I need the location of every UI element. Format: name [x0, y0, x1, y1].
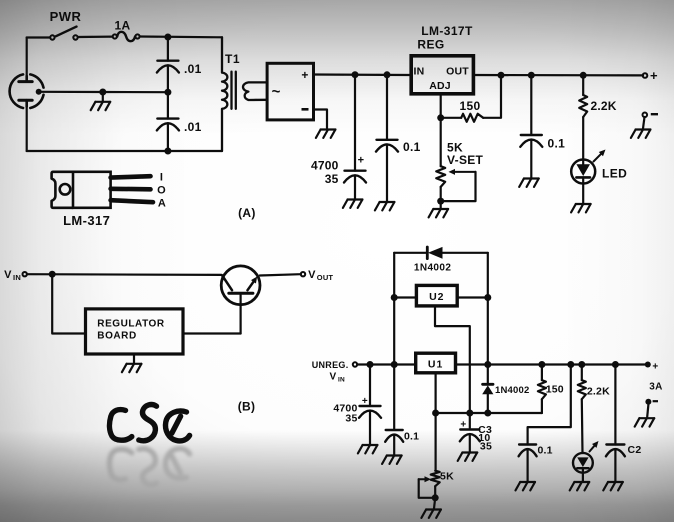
wire LED D4 to ground [582, 473, 584, 481]
label V-SET [447, 153, 484, 167]
svg-text:1N4002: 1N4002 [495, 385, 529, 396]
wire C4 to ground [386, 144, 388, 201]
wire R1 to rail [483, 75, 501, 118]
resistor R1 150 [461, 114, 483, 122]
capacitor C2 .01 [157, 119, 179, 131]
ground R6 [421, 510, 441, 518]
wire B rail left [357, 363, 416, 365]
wire wiper loop [441, 172, 476, 201]
wire -B to ground [647, 405, 648, 418]
wire U2 left [394, 296, 416, 298]
wire R3 to LED [582, 117, 584, 160]
LED D1 arrow [594, 150, 606, 162]
regulator U2 box [416, 285, 457, 306]
regulator U1 box [416, 353, 456, 373]
wire dogleg [528, 365, 571, 445]
label BR1 - [302, 108, 309, 111]
svg-text:T1: T1 [225, 52, 240, 66]
wire B rail to C6 [369, 365, 371, 407]
label D3 1N4002 [495, 385, 529, 396]
transistor Q1 [221, 266, 260, 305]
svg-text:2.2K: 2.2K [591, 99, 617, 113]
bridge rectifier BR1 [267, 63, 313, 120]
label B 4700 [333, 403, 357, 415]
wire C3 to ground [354, 175, 356, 198]
label B 35 [345, 413, 357, 425]
node R4 junction [538, 361, 545, 368]
ground BR1 minus [316, 130, 336, 138]
label (A) [238, 206, 256, 220]
node R5 junction [578, 361, 585, 368]
node VIN junction [49, 271, 56, 278]
svg-text:(B): (B) [238, 400, 256, 414]
svg-text:35: 35 [325, 172, 339, 186]
wire rail to C3 [354, 75, 356, 171]
svg-text:5K: 5K [440, 471, 454, 483]
svg-text:~: ~ [272, 84, 281, 101]
wire board ground stub [133, 354, 135, 363]
svg-text:IN: IN [414, 66, 425, 78]
svg-text:+: + [358, 155, 365, 167]
wire rail to C5 [530, 75, 532, 135]
resistor R3 2.2K [579, 95, 587, 117]
pot R2 wiper [449, 169, 476, 175]
svg-text:LM-317: LM-317 [63, 213, 110, 228]
svg-text:IN: IN [338, 377, 345, 384]
label LED [602, 167, 627, 181]
wire VIN drop [52, 274, 85, 333]
label T1 [225, 52, 240, 66]
svg-text:UNREG.: UNREG. [312, 360, 349, 370]
svg-text:U2: U2 [429, 291, 444, 303]
wire rail to C10 [614, 365, 616, 445]
label pin O [157, 184, 166, 196]
CSE logo [109, 405, 189, 441]
capacitor C1 .01 [157, 61, 179, 73]
label 3A [649, 382, 663, 393]
svg-text:4700: 4700 [311, 159, 339, 173]
svg-text:V: V [4, 269, 12, 281]
wire base lead [240, 293, 242, 333]
label B 5K [440, 471, 454, 483]
svg-text:35: 35 [345, 413, 357, 425]
wire rail to R4 [541, 365, 543, 381]
wire left vert top [393, 253, 395, 365]
label LM-317 [63, 213, 110, 228]
label U1 [428, 359, 443, 371]
svg-text:PWR: PWR [50, 9, 82, 24]
transformer T1 secondary [243, 82, 267, 100]
node ADJ junction [437, 114, 444, 121]
svg-text:+: + [460, 420, 466, 431]
label C8 + [460, 420, 466, 431]
wire C5 to ground [530, 140, 532, 178]
ground C8 [458, 453, 478, 461]
svg-text:35: 35 [480, 441, 492, 453]
capacitor C10 C2 [606, 445, 625, 457]
ground C9 [516, 482, 536, 490]
label C2 .01 [184, 120, 202, 134]
wire emitter to VOUT [260, 274, 301, 275]
wire U1 bottom [435, 373, 437, 471]
wire R6 bottom [434, 486, 436, 498]
terminal - output A [643, 113, 659, 118]
svg-text:0.1: 0.1 [538, 445, 553, 457]
label C6 + [362, 396, 368, 407]
svg-text:0.1: 0.1 [404, 431, 419, 443]
wire plug dot to ground node [42, 91, 103, 93]
svg-text:1N4002: 1N4002 [414, 263, 451, 274]
wire right vert top [487, 253, 489, 384]
node bus D3 junction [484, 410, 491, 417]
svg-text:2.2K: 2.2K [587, 386, 610, 398]
regulator board box [86, 309, 184, 354]
ground neutral [91, 102, 111, 110]
label IN [414, 66, 425, 78]
node 0.1B junction [528, 72, 535, 79]
transformer T1 core [232, 72, 236, 109]
node U2 right junction [484, 294, 491, 301]
node pot bottom junction [437, 198, 444, 205]
label C3 [478, 424, 492, 436]
label ADJ [429, 80, 451, 92]
node bus C8 junction [466, 410, 473, 417]
svg-text:OUT: OUT [446, 66, 469, 78]
potentiometer R2 5K [436, 166, 445, 187]
node bus left junction [432, 410, 439, 417]
AC plug P1 [10, 74, 44, 108]
svg-text:C2: C2 [628, 444, 642, 456]
regulator U1 LM-317T box [411, 56, 473, 94]
wire adj bus [436, 412, 542, 414]
svg-text:(A): (A) [238, 206, 256, 220]
wire R4 to bus [541, 399, 543, 413]
wire R5 to LED [581, 399, 584, 453]
capacitor C9 0.1 [519, 445, 537, 457]
wire switch to fuse [78, 35, 112, 38]
capacitor C8 C3 10/35 [460, 430, 480, 442]
wire fuse to T1 [140, 35, 222, 38]
LED D4 [573, 453, 593, 473]
wire left vert to C7 [393, 365, 395, 431]
wire ADJ to pot [440, 118, 442, 166]
svg-text:OUT: OUT [317, 273, 334, 282]
node mid junction [164, 89, 171, 96]
LED D4 arrow [590, 441, 599, 452]
label (B) [238, 400, 256, 414]
svg-text:BOARD: BOARD [97, 331, 136, 342]
svg-text:A: A [158, 197, 166, 209]
capacitor C4 0.1 [376, 140, 398, 152]
label C2 [628, 444, 642, 456]
svg-text:0.1: 0.1 [403, 140, 421, 154]
terminal VOUT [301, 269, 334, 282]
wire rail to R5 [581, 365, 583, 381]
label B 150 [546, 384, 564, 396]
svg-text:+: + [650, 68, 658, 83]
potentiometer R6 5K [431, 471, 440, 487]
wire C9 to ground [526, 449, 528, 481]
label 4700 [311, 159, 339, 173]
ground C6 [358, 445, 378, 453]
wire -A to ground [643, 117, 645, 129]
ground LED [571, 204, 591, 212]
label BR1 + [301, 68, 308, 82]
wire rail to R3 [582, 75, 584, 95]
ground C4 [375, 202, 395, 210]
svg-text:O: O [157, 184, 166, 196]
svg-text:+: + [362, 396, 368, 407]
label C3 10 [478, 432, 490, 444]
node 4700 junction [352, 71, 359, 78]
wire ADJ to R1 [441, 117, 462, 119]
LED D1 [571, 160, 595, 184]
wire top rail to switch [27, 36, 50, 38]
wire C10 to ground [614, 449, 616, 481]
svg-text:+: + [301, 68, 308, 82]
capacitor C5 0.1 [520, 135, 542, 147]
node R1 rail junction [498, 72, 505, 79]
label LM-317T [421, 24, 473, 38]
label 5K [447, 141, 463, 155]
svg-text:V: V [308, 269, 316, 281]
svg-text:IN: IN [13, 273, 21, 282]
label 2.2K [591, 99, 617, 113]
diode D2 1N4002 [427, 247, 442, 259]
label C4 0.1 [403, 140, 421, 154]
capacitor C6 4700/35 [359, 406, 381, 418]
pot R6 wiper [419, 476, 431, 482]
wire board to base [183, 332, 241, 334]
svg-text:1A: 1A [115, 19, 131, 33]
node D3 rail junction [484, 361, 491, 368]
switch S1 PWR [50, 27, 78, 40]
svg-text:REG: REG [417, 38, 444, 52]
svg-text:I: I [160, 172, 163, 184]
wire rail to C4 [386, 75, 388, 140]
wire rail to C1 [167, 37, 169, 61]
wire neutral to mid junction [103, 91, 168, 93]
wire R6 wiper loop [419, 479, 436, 498]
CSE logo reflection [109, 449, 189, 485]
wire neutral ground stub [102, 92, 104, 102]
node neutral ground junction [99, 89, 106, 96]
capacitor C7 0.1 [385, 430, 403, 442]
ground C5 [519, 179, 539, 187]
wire pot bottom [440, 187, 442, 201]
wire mid to C2 [167, 92, 169, 118]
node B left-vert junction [391, 361, 398, 368]
svg-text:0.1: 0.1 [548, 137, 566, 151]
label 1A [115, 19, 131, 33]
node bottom junction [164, 148, 171, 155]
label BOARD [97, 331, 136, 342]
svg-text:3A: 3A [649, 382, 663, 393]
wire C1 to mid junction [167, 65, 169, 92]
terminal + output B [645, 362, 659, 373]
node R6 bottom junction [432, 494, 439, 501]
terminal VIN [4, 269, 27, 282]
wire R6 to ground [434, 498, 435, 509]
label C5 0.1 [548, 137, 566, 151]
terminal - output B [645, 399, 658, 405]
node 0.1 junction [384, 71, 391, 78]
label C1 .01 [184, 62, 202, 76]
label PWR [50, 9, 82, 24]
ground C10 [603, 482, 623, 490]
svg-text:150: 150 [546, 384, 564, 396]
label ~ [272, 84, 281, 101]
label D2 1N4002 [414, 263, 451, 274]
resistor R5 2.2K [578, 380, 586, 399]
wire VIN rail [27, 273, 222, 276]
label REG [417, 38, 444, 52]
wire U1 right rail [456, 363, 646, 365]
ground C3 [343, 200, 363, 208]
diode D3 1N4002 [482, 384, 493, 413]
svg-text:LM-317T: LM-317T [421, 24, 473, 38]
wire plug-top to rail [26, 38, 28, 82]
node dogleg junction [567, 361, 574, 368]
svg-text:150: 150 [460, 99, 481, 113]
svg-text:REGULATOR: REGULATOR [97, 319, 165, 330]
node top-cap junction [164, 34, 171, 41]
svg-text:V-SET: V-SET [447, 153, 484, 167]
svg-text:+: + [652, 362, 658, 373]
svg-text:.01: .01 [184, 120, 202, 134]
label U2 [429, 291, 444, 303]
label pin I [160, 172, 163, 184]
wire U2 bottom [435, 306, 470, 428]
ground C7 [382, 456, 402, 464]
wire C2 to bottom rail [167, 123, 169, 151]
terminal + output A [643, 68, 658, 83]
label 150 [460, 99, 481, 113]
svg-text:U1: U1 [428, 359, 443, 371]
wire plug-bottom to bottom rail [26, 106, 28, 151]
label C3 35 [480, 441, 492, 453]
wire ADJ down [440, 94, 442, 118]
LM-317 package [52, 172, 153, 208]
svg-text:.01: .01 [184, 62, 202, 76]
ground -B [635, 418, 655, 426]
wire bottom rail [27, 150, 222, 152]
label C3 + [358, 155, 365, 167]
wire LED to ground [582, 184, 584, 204]
ground board [122, 364, 141, 372]
wire pot to ground [440, 201, 442, 208]
label OUT [446, 66, 469, 78]
transformer T1 primary [222, 37, 227, 151]
node C2 junction [612, 361, 619, 368]
svg-text:ADJ: ADJ [429, 80, 451, 92]
resistor R4 150 [538, 380, 546, 399]
node U2 left junction [391, 294, 398, 301]
wire top diode [394, 252, 488, 254]
label B 2.2K [587, 386, 610, 398]
fuse F1 1A [113, 32, 140, 41]
label C9 0.1 [538, 445, 553, 457]
terminal UNREG VIN [312, 360, 358, 384]
wire U2 right [457, 296, 488, 298]
ground -A [631, 130, 651, 138]
svg-text:V: V [330, 372, 337, 383]
ground pot [429, 209, 449, 217]
wire main rail A [314, 73, 412, 76]
label pin A [158, 197, 166, 209]
wire C7 to ground [393, 435, 395, 455]
wire C6 to ground [369, 411, 371, 444]
node LED branch junction [580, 72, 587, 79]
node B 4700 junction [367, 361, 374, 368]
capacitor C3 4700/35 [344, 171, 366, 183]
svg-text:LED: LED [602, 167, 627, 181]
wire C8 to ground [469, 434, 471, 451]
label 35 [325, 172, 339, 186]
label C7 0.1 [404, 431, 419, 443]
wire BR1 minus out [314, 110, 328, 129]
wire rail OUT [473, 74, 643, 77]
label REGULATOR [97, 319, 165, 330]
ground LED D4 [570, 482, 590, 490]
